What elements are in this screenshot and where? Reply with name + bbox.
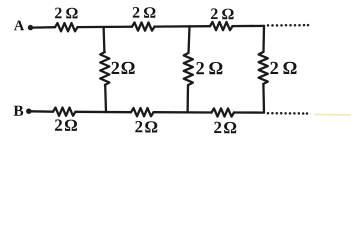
value label R8 2 ohm [196, 62, 222, 74]
wire shunt 1 upper [102, 27, 105, 52]
wire R4 to R5 (node 1 on bottom rail) [76, 111, 132, 114]
wire shunt 1 lower [104, 85, 107, 112]
wire R3 to right corner of top rail [233, 25, 265, 28]
resistor R5 2ohm bottom-middle [131, 108, 154, 116]
value label R2 2 ohm [133, 7, 156, 18]
wire R5 to R6 (node 2 on bottom rail) [154, 111, 212, 114]
terminal dot A [28, 25, 33, 30]
wire A to R1 [33, 26, 56, 29]
value label R5 2 ohm [135, 121, 157, 133]
resistor R7 2ohm shunt 1 [100, 52, 109, 85]
wire shunt 3 upper (right edge) [262, 26, 265, 52]
wire R2 to R3 (node 2 on top rail) [155, 25, 211, 28]
dotted continuation top rail [267, 24, 310, 27]
wire R6 to right corner of bottom rail [234, 111, 264, 113]
value label R3 2 ohm [211, 8, 234, 19]
value label R6 2 ohm [214, 122, 236, 134]
value label R4 2 ohm [55, 119, 77, 130]
resistor R1 2ohm top-left [55, 23, 78, 31]
wire R1 to R2 (node 1 on top rail) [78, 26, 133, 29]
resistor R6 2ohm bottom-right [212, 108, 235, 116]
resistor R3 2ohm top-right [210, 22, 233, 30]
value label R7 2 ohm [112, 62, 135, 74]
scan artifact faint yellow line bottom right [314, 113, 351, 116]
wire B to R4 [31, 110, 53, 113]
wire shunt 3 lower (right edge) [262, 84, 265, 113]
wire shunt 2 upper [189, 26, 190, 53]
resistor R4 2ohm bottom-left [53, 108, 76, 116]
resistor R8 2ohm shunt 2 [184, 53, 193, 85]
value label R9 2 ohm [270, 62, 296, 74]
terminal dot B [26, 109, 31, 114]
wire shunt 2 lower [186, 85, 189, 112]
dotted continuation bottom rail [267, 112, 309, 115]
resistor R2 2ohm top-middle [132, 23, 155, 31]
label terminal A [14, 21, 24, 31]
resistor R9 2ohm shunt 3 [259, 52, 268, 84]
label terminal B [14, 106, 24, 116]
value label R1 2 ohm [55, 8, 78, 19]
